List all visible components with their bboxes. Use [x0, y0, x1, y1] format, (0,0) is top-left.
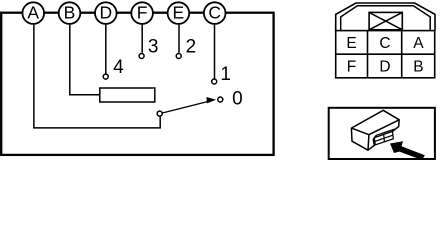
relay body front-top edge: [351, 120, 399, 135]
connector face: inner roof outline: [341, 6, 431, 31]
svg-text:B: B: [413, 58, 423, 75]
wire D: [105, 25, 107, 74]
connector pin circle B: [59, 2, 81, 24]
terminal 0 circle: [218, 97, 223, 102]
plug terminal face: [374, 131, 393, 145]
wire A vertical and bottom run to switch pivot: [34, 25, 160, 128]
pointer arrow (solid): [390, 141, 425, 160]
wire C: [214, 25, 216, 79]
connector pin circle F: [131, 2, 153, 24]
svg-text:2: 2: [186, 37, 197, 58]
switch pivot circle: [157, 111, 162, 116]
connector pin circle A: [22, 2, 44, 24]
keyway X diagonals: [369, 12, 402, 29]
wire F: [141, 25, 143, 53]
svg-text:F: F: [347, 58, 356, 75]
svg-text:C: C: [379, 35, 390, 52]
plug left sliver face: [373, 138, 375, 145]
relay 3D body silhouette: [351, 110, 399, 150]
photo inset box: [329, 108, 435, 159]
plug terminal grid lines: [375, 135, 393, 142]
terminal 1 circle: [212, 79, 217, 84]
connector face: keyway box with X: [369, 12, 402, 29]
switch blade arrowhead: [206, 97, 216, 103]
svg-text:D: D: [379, 58, 390, 75]
connector pin circle C: [204, 2, 226, 24]
svg-text:A: A: [413, 35, 424, 52]
pin table grid: [336, 31, 435, 78]
terminal 4 circle: [103, 74, 108, 79]
svg-text:4: 4: [113, 57, 124, 78]
svg-text:E: E: [346, 35, 356, 52]
outer schematic box: [1, 13, 273, 155]
svg-text:3: 3: [148, 37, 159, 58]
terminal 2 circle: [176, 54, 181, 59]
svg-text:0: 0: [232, 88, 243, 109]
connector pin circle D: [95, 2, 117, 24]
svg-text:F: F: [137, 3, 148, 23]
svg-text:A: A: [27, 3, 39, 23]
svg-text:1: 1: [220, 64, 231, 85]
terminal 3 circle: [139, 54, 144, 59]
wire E: [178, 25, 180, 53]
connector face: outer roof outline: [336, 3, 435, 31]
svg-text:E: E: [173, 3, 185, 23]
wire B to resistor: [70, 25, 100, 95]
relay body front-right vertical edge: [367, 135, 370, 151]
resistor R (box): [100, 88, 155, 102]
svg-text:B: B: [64, 3, 76, 23]
svg-text:D: D: [99, 3, 112, 23]
switch blade: [162, 101, 208, 113]
plug top strip: [374, 129, 394, 138]
svg-text:C: C: [208, 3, 221, 23]
connector pin circle E: [168, 2, 190, 24]
